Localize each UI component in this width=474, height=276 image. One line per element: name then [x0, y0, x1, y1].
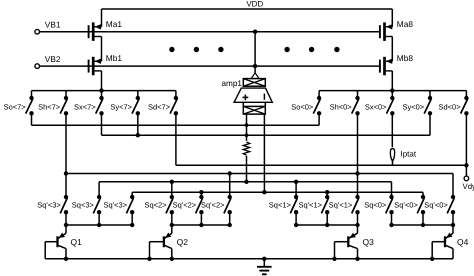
svg-text:Mb8: Mb8: [397, 53, 414, 63]
svg-text:Sq<2>: Sq<2>: [144, 201, 167, 210]
svg-text:Sh<0>: Sh<0>: [330, 102, 353, 111]
svg-text:Vdy: Vdy: [463, 182, 474, 191]
svg-text:Sd<7>: Sd<7>: [148, 102, 171, 111]
svg-text:Sy<0>: Sy<0>: [403, 102, 425, 111]
svg-text:Q4: Q4: [457, 237, 469, 247]
svg-text:Sd<0>: Sd<0>: [438, 102, 461, 111]
svg-text:Iptat: Iptat: [401, 149, 417, 158]
svg-text:VB1: VB1: [45, 20, 61, 30]
svg-text:Sq<1>: Sq<1>: [269, 201, 292, 210]
svg-text:Sq'<2>: Sq'<2>: [173, 201, 197, 210]
svg-text:Q2: Q2: [177, 237, 189, 247]
svg-text:Q1: Q1: [71, 237, 83, 247]
svg-text:Ma1: Ma1: [106, 19, 123, 29]
svg-text:Sq'<3>: Sq'<3>: [37, 201, 61, 210]
svg-text:VB2: VB2: [45, 54, 61, 64]
svg-text:Sq'<2>: Sq'<2>: [201, 201, 225, 210]
svg-text:Sq<3>: Sq<3>: [72, 201, 95, 210]
svg-text:Sq<0>: Sq<0>: [364, 201, 387, 210]
svg-text:Sq'<1>: Sq'<1>: [298, 201, 322, 210]
svg-text:Mb1: Mb1: [106, 53, 123, 63]
svg-text:So<0>: So<0>: [291, 102, 314, 111]
svg-text:VDD: VDD: [246, 0, 263, 8]
svg-text:Ma8: Ma8: [397, 19, 414, 29]
svg-text:Sq'<0>: Sq'<0>: [394, 201, 418, 210]
svg-text:amp1: amp1: [222, 79, 243, 88]
svg-text:So<7>: So<7>: [4, 102, 27, 111]
svg-text:Sq'<0>: Sq'<0>: [424, 201, 448, 210]
svg-text:Q3: Q3: [363, 237, 375, 247]
svg-text:Sy<7>: Sy<7>: [110, 102, 132, 111]
svg-text:Sq'<3>: Sq'<3>: [103, 201, 127, 210]
svg-text:Sq'<1>: Sq'<1>: [329, 201, 353, 210]
svg-text:Sh<7>: Sh<7>: [38, 102, 61, 111]
svg-text:Sx<0>: Sx<0>: [365, 102, 387, 111]
svg-text:Sx<7>: Sx<7>: [74, 102, 96, 111]
